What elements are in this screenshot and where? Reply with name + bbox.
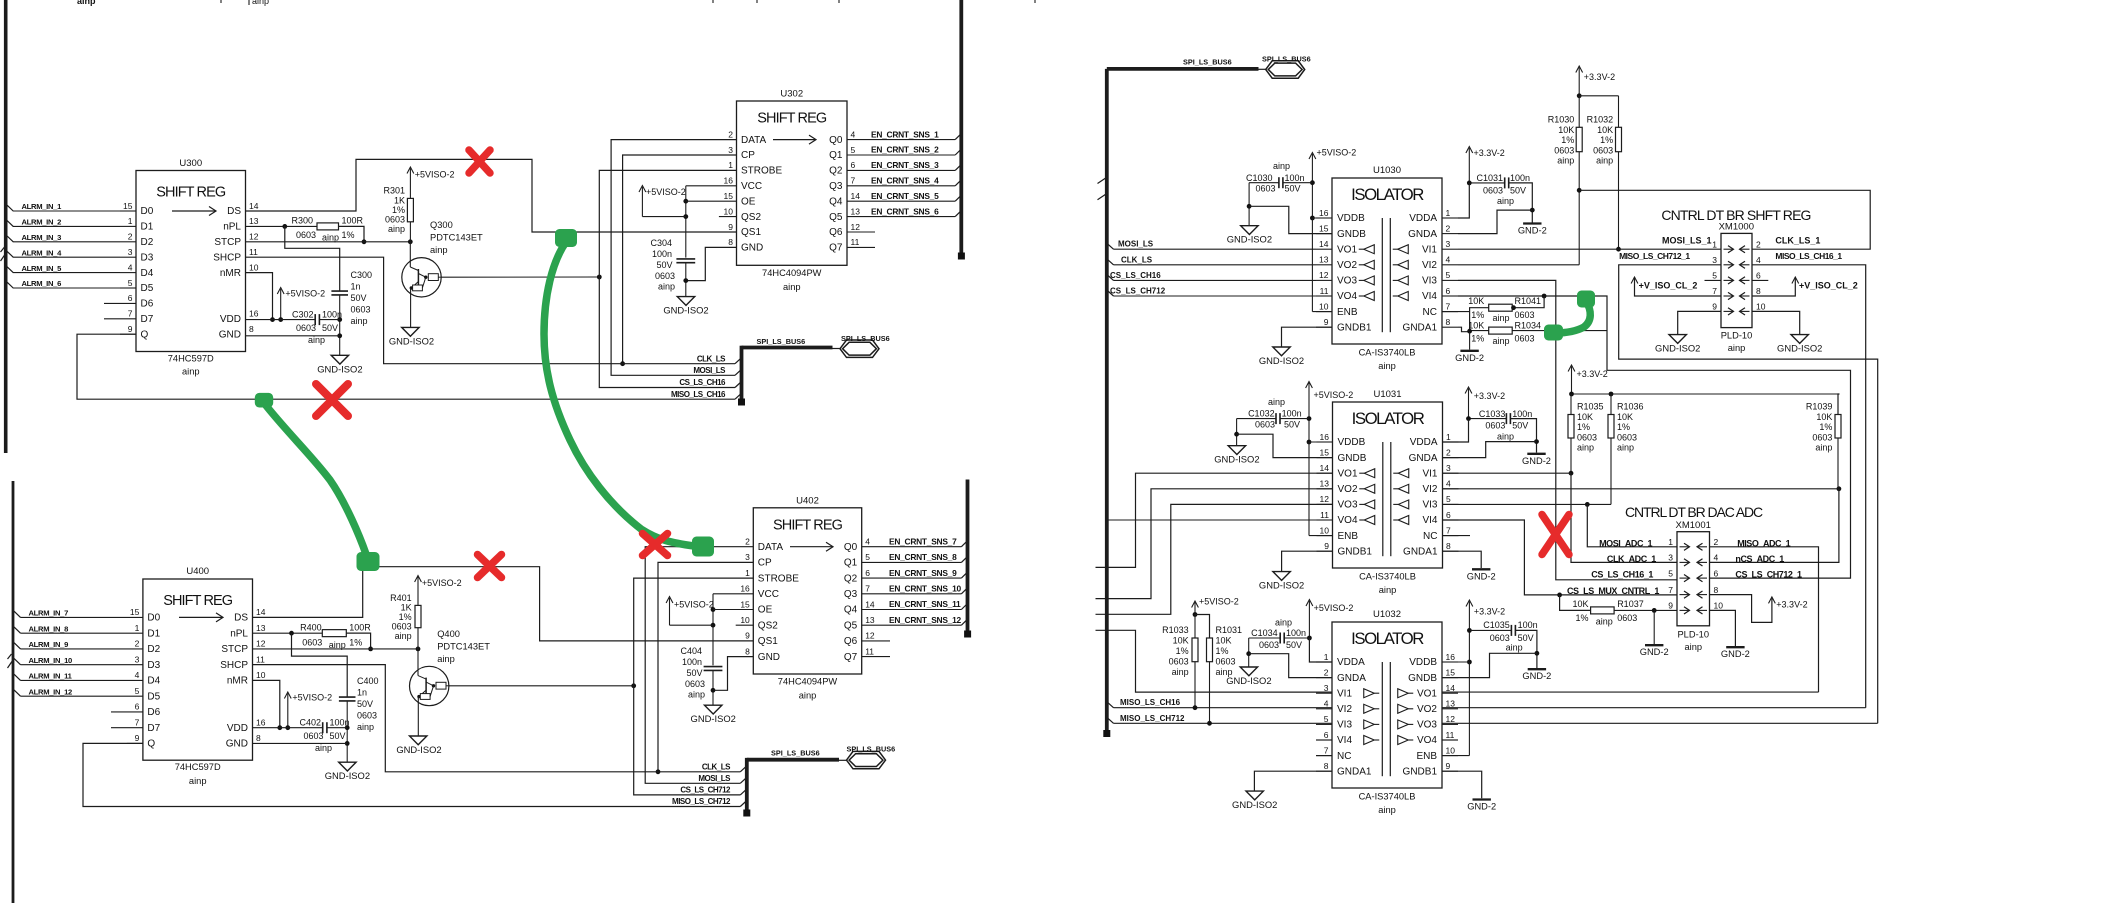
- svg-text:10: 10: [1756, 302, 1766, 312]
- wire mid stub to U1032 VI1: [1096, 630, 1333, 692]
- svg-text:VI4: VI4: [1422, 515, 1437, 526]
- svg-text:OE: OE: [741, 196, 756, 207]
- wire STCP net: [246, 241, 411, 243]
- wire U302 CP to CLK_LS: [623, 155, 737, 364]
- wire U1030 GNDA to GND-2: [1458, 210, 1532, 234]
- wire U400 SHCP to CLK_LS row: [253, 665, 741, 772]
- svg-text:D2: D2: [141, 237, 154, 248]
- svg-text:PDTC143ET: PDTC143ET: [430, 233, 483, 243]
- svg-text:ainp: ainp: [658, 282, 675, 292]
- resistor R1037 10K: [1591, 607, 1615, 614]
- svg-text:ALRM_IN_2: ALRM_IN_2: [22, 218, 62, 227]
- ground GND-ISO2 at U1032 GNDA: [1240, 667, 1257, 676]
- annotation green blob on U302 QS1 wire: [555, 229, 577, 247]
- page border segment (bottom-left): [12, 481, 15, 903]
- annotation red X on CS_LS_CH16_1 vertical: [1542, 515, 1569, 555]
- svg-text:1: 1: [728, 160, 733, 170]
- svg-text:1%: 1%: [1471, 310, 1484, 320]
- svg-text:GNDB1: GNDB1: [1403, 766, 1438, 777]
- svg-text:6: 6: [1446, 286, 1451, 296]
- wire C400 to ground rail: [346, 701, 348, 762]
- svg-text:11: 11: [851, 237, 860, 247]
- bus entries MOSI CLK CS16 CS712 with labels: [1107, 243, 1114, 249]
- IC U1032 CA-IS3740LB digital isolator: [1332, 622, 1442, 788]
- svg-text:50V: 50V: [656, 260, 672, 270]
- wire U302 VCC rail: [686, 185, 737, 187]
- svg-text:2: 2: [745, 537, 750, 547]
- svg-text:U1031: U1031: [1374, 389, 1402, 400]
- svg-text:SHIFT REG: SHIFT REG: [773, 518, 843, 534]
- svg-text:ainp: ainp: [357, 722, 374, 732]
- annotation green blob on U402 DATA wire: [692, 537, 714, 557]
- connector XM1001 PLD-10: [1677, 532, 1710, 626]
- power +5VISO-2 at R401: [417, 577, 419, 605]
- wire VDD net: [246, 319, 316, 321]
- svg-text:1%: 1%: [342, 230, 355, 240]
- svg-text:15: 15: [130, 607, 140, 617]
- wire R1039 bottom: [1837, 438, 1839, 489]
- svg-text:10: 10: [1446, 745, 1456, 755]
- wire U1030 GNDA1 to GND-2: [1458, 327, 1470, 332]
- svg-text:Q7: Q7: [844, 652, 858, 663]
- wire U302 OE: [686, 200, 737, 202]
- power +5VISO-2 at U402: [669, 598, 671, 625]
- svg-text:MOSI_LS: MOSI_LS: [698, 774, 731, 783]
- svg-text:R1037: R1037: [1617, 599, 1644, 609]
- wire U1032 ENB to +3.3V-2: [1468, 662, 1470, 756]
- svg-text:100n: 100n: [682, 657, 702, 667]
- svg-text:9: 9: [135, 733, 140, 743]
- svg-text:13: 13: [851, 206, 861, 216]
- svg-text:U400: U400: [186, 566, 209, 577]
- svg-text:1K: 1K: [394, 196, 405, 206]
- svg-text:10K: 10K: [1558, 125, 1574, 135]
- svg-text:CS_LS_CH16: CS_LS_CH16: [1110, 271, 1161, 280]
- svg-text:7: 7: [865, 584, 870, 594]
- annotation green highlighter stroke B: [544, 242, 694, 546]
- power +5VISO-2 at R301: [409, 169, 411, 199]
- annotation green blob on MISO_LS_CH16 row: [255, 393, 273, 408]
- svg-text:VI1: VI1: [1422, 244, 1437, 255]
- power +3.3V-2 rail above R1035 R1036 R1039: [1571, 367, 1573, 395]
- wire U1032 GNDA1 to ground: [1254, 771, 1332, 791]
- svg-text:ainp: ainp: [1497, 432, 1514, 442]
- wire C1033 to GND-2: [1510, 419, 1536, 453]
- svg-text:ISOLATOR: ISOLATOR: [1351, 185, 1424, 204]
- svg-text:0603: 0603: [385, 215, 405, 225]
- svg-text:ainp: ainp: [437, 654, 455, 664]
- svg-text:10K: 10K: [1577, 412, 1593, 422]
- XM1001 pin arrows and numbers: [1680, 546, 1689, 548]
- resistor R1041 10K: [1489, 304, 1513, 311]
- svg-text:VO2: VO2: [1417, 704, 1437, 715]
- svg-text:GND-ISO2: GND-ISO2: [317, 363, 362, 374]
- svg-text:ainp: ainp: [395, 631, 412, 641]
- svg-text:GND-2: GND-2: [1467, 571, 1496, 581]
- wire C1031 to GND-2: [1509, 183, 1533, 223]
- annotation green blob at U400 DS corner: [357, 552, 380, 571]
- wire U1031 ENB to +5VISO-2: [1308, 442, 1310, 536]
- ground GND-ISO2 under C304: [677, 297, 694, 306]
- svg-text:STCP: STCP: [214, 237, 241, 248]
- svg-text:GNDB: GNDB: [1338, 453, 1367, 464]
- capacitor C304 100n: [676, 258, 695, 260]
- resistor R1030 10K: [1576, 127, 1582, 151]
- wire STCP net U400: [253, 648, 419, 650]
- svg-text:CA-IS3740LB: CA-IS3740LB: [1359, 792, 1416, 802]
- power +5VISO-2 at U300 VDD: [280, 289, 282, 320]
- svg-text:ainp: ainp: [1493, 336, 1510, 346]
- U1032 VO4 stub: [1442, 739, 1458, 741]
- svg-text:VI1: VI1: [1422, 468, 1437, 479]
- svg-text:SHCP: SHCP: [220, 660, 248, 671]
- wire U1032 VO3 row: [1442, 722, 1878, 724]
- svg-text:0603: 0603: [296, 230, 316, 240]
- wire U1031 VO1 to mid stub: [1096, 473, 1333, 567]
- svg-text:14: 14: [1319, 239, 1329, 249]
- svg-text:50V: 50V: [1286, 640, 1302, 650]
- svg-text:GNDB: GNDB: [1337, 229, 1366, 240]
- bus entries MISO_LS_CH16 MISO_LS_CH712 with labels: [1107, 702, 1114, 708]
- svg-text:C302: C302: [292, 310, 314, 320]
- svg-text:1: 1: [135, 623, 140, 633]
- svg-text:SPI_LS_BUS6: SPI_LS_BUS6: [1183, 58, 1232, 67]
- svg-text:0603: 0603: [303, 731, 323, 741]
- wire GND pin U300: [246, 335, 340, 337]
- svg-text:D4: D4: [147, 676, 160, 687]
- svg-text:R1035: R1035: [1577, 402, 1604, 412]
- svg-text:VDDA: VDDA: [1337, 657, 1365, 668]
- svg-text:ainp: ainp: [1497, 196, 1514, 206]
- wire nPL net: [246, 225, 318, 227]
- svg-text:U302: U302: [780, 89, 803, 100]
- svg-text:ALRM_IN_3: ALRM_IN_3: [22, 233, 62, 242]
- svg-text:15: 15: [740, 599, 750, 609]
- IC U302 74HC4094PW shift register: [737, 101, 848, 265]
- wire U1031 VO2 to mid stub: [1096, 489, 1333, 599]
- svg-text:R300: R300: [291, 215, 313, 225]
- svg-text:ENB: ENB: [1416, 751, 1437, 762]
- svg-text:ainp: ainp: [430, 245, 448, 255]
- svg-text:EN_CRNT_SNS_5: EN_CRNT_SNS_5: [871, 191, 939, 201]
- svg-text:2: 2: [1324, 667, 1329, 677]
- svg-text:8: 8: [1324, 761, 1329, 771]
- wire R1041 right to VI4 row: [1512, 296, 1544, 308]
- bus port SPI_LS_BUS6 hexagon (right): [1266, 61, 1305, 78]
- svg-text:13: 13: [865, 615, 875, 625]
- wire Q400 collector to STROBE net: [449, 685, 634, 687]
- svg-text:GND: GND: [741, 243, 763, 254]
- svg-text:GND-ISO2: GND-ISO2: [1777, 343, 1822, 354]
- svg-text:0603: 0603: [1216, 657, 1236, 667]
- svg-text:0603: 0603: [1593, 145, 1613, 155]
- ground GND-2 at XM1001 pin10: [1726, 646, 1744, 648]
- svg-text:7: 7: [1668, 585, 1673, 595]
- resistor R400 100R: [322, 630, 346, 637]
- svg-text:SHCP: SHCP: [213, 252, 241, 263]
- bus SPI_LS_BUS6 (right vertical): [1105, 69, 1109, 734]
- svg-text:GND-ISO2: GND-ISO2: [1259, 580, 1304, 591]
- wire DS route to U302 QS1: [246, 159, 737, 232]
- ground GND-ISO2 at U1031 GNDB1: [1273, 572, 1290, 581]
- wire U1031 VO4 long row: [1106, 519, 1333, 521]
- svg-text:8: 8: [1446, 317, 1451, 327]
- svg-text:+5VISO-2: +5VISO-2: [292, 693, 332, 703]
- svg-text:U402: U402: [796, 495, 819, 506]
- net labels EN_CRNT_SNS_1..6 to bus: [847, 139, 955, 141]
- svg-text:3: 3: [135, 654, 140, 664]
- svg-text:10: 10: [1714, 601, 1724, 611]
- svg-text:15: 15: [724, 191, 734, 201]
- wire R1037 left to MUX row: [1560, 595, 1591, 611]
- transistor Q400 PDTC143ET: [417, 649, 419, 676]
- svg-text:C1030: C1030: [1246, 173, 1273, 183]
- wire R300 to STCP junction: [339, 226, 365, 241]
- U1030 channel buffers: [1364, 245, 1375, 254]
- wire U1030 VDDA to +3.3V-2: [1458, 183, 1469, 218]
- svg-text:+5VISO-2: +5VISO-2: [415, 170, 455, 180]
- power +3.3V-2 at C1033: [1468, 389, 1470, 419]
- svg-text:1%: 1%: [1575, 613, 1588, 623]
- svg-text:GNDB1: GNDB1: [1337, 322, 1372, 333]
- wire U402 DATA to MOSI_LS: [645, 547, 753, 784]
- svg-text:CLK_LS: CLK_LS: [702, 763, 731, 772]
- svg-text:CS_LS_CH16_1: CS_LS_CH16_1: [1591, 570, 1653, 580]
- svg-text:Q300: Q300: [430, 220, 453, 230]
- svg-text:SHIFT REG: SHIFT REG: [163, 593, 233, 609]
- svg-text:+3.3V-2: +3.3V-2: [1776, 600, 1807, 610]
- svg-text:ISOLATOR: ISOLATOR: [1352, 409, 1425, 428]
- svg-text:U1032: U1032: [1373, 609, 1401, 620]
- svg-text:3: 3: [1668, 553, 1673, 563]
- ground GND-ISO2 at XM1000 pin10: [1791, 335, 1808, 344]
- svg-text:MOSI_LS: MOSI_LS: [1118, 240, 1154, 249]
- svg-text:SHIFT REG: SHIFT REG: [156, 185, 226, 201]
- svg-text:MOSI_LS: MOSI_LS: [693, 366, 726, 375]
- svg-text:14: 14: [865, 599, 875, 609]
- svg-text:8: 8: [1446, 541, 1451, 551]
- wire nMR to VDD rail U400: [253, 680, 280, 727]
- power +5VISO-2 left at R1033 R1031: [1194, 603, 1196, 615]
- svg-text:7: 7: [851, 176, 856, 186]
- svg-text:VDD: VDD: [220, 314, 241, 325]
- svg-text:GNDB1: GNDB1: [1338, 546, 1373, 557]
- svg-text:DS: DS: [234, 613, 248, 624]
- svg-text:VDDA: VDDA: [1409, 213, 1437, 224]
- svg-text:CLK_ADC_1: CLK_ADC_1: [1607, 554, 1656, 564]
- svg-text:DATA: DATA: [758, 542, 784, 553]
- annotation red X on U400 DS route: [478, 555, 502, 578]
- svg-text:50V: 50V: [1285, 184, 1301, 194]
- svg-text:GND: GND: [219, 329, 241, 340]
- svg-text:3: 3: [1446, 239, 1451, 249]
- svg-text:ainp: ainp: [1596, 617, 1613, 627]
- svg-text:5: 5: [1712, 271, 1717, 281]
- svg-text:5: 5: [1668, 568, 1673, 578]
- svg-text:1: 1: [1446, 432, 1451, 442]
- wire Q300 collector to STROBE net: [441, 276, 599, 278]
- svg-text:2: 2: [1714, 537, 1719, 547]
- IC U300 74HC597D shift register: [136, 171, 246, 352]
- capacitor C402 100n: [322, 722, 324, 733]
- svg-text:MISO_LS_CH16: MISO_LS_CH16: [1120, 698, 1181, 707]
- svg-text:Q5: Q5: [829, 212, 843, 223]
- resistor R1031 10K: [1207, 638, 1213, 662]
- svg-text:GND-2: GND-2: [1522, 671, 1551, 681]
- svg-text:1: 1: [128, 216, 133, 226]
- wire nPL net U400: [253, 632, 323, 634]
- svg-text:VDDA: VDDA: [1410, 437, 1438, 448]
- svg-text:15: 15: [123, 201, 133, 211]
- svg-text:GND: GND: [226, 739, 248, 750]
- svg-text:VI4: VI4: [1337, 735, 1352, 746]
- capacitor C1031 100n: [1504, 177, 1506, 188]
- svg-text:1: 1: [1712, 239, 1717, 249]
- svg-text:0603: 0603: [1812, 432, 1832, 442]
- svg-text:0603: 0603: [1169, 657, 1189, 667]
- svg-text:100n: 100n: [1286, 628, 1306, 638]
- svg-text:100n: 100n: [652, 249, 672, 259]
- svg-text:EN_CRNT_SNS_11: EN_CRNT_SNS_11: [889, 599, 961, 609]
- svg-text:R1034: R1034: [1515, 320, 1542, 330]
- power +5VISO-2 at U302: [641, 187, 643, 217]
- svg-text:50V: 50V: [351, 293, 367, 303]
- svg-text:ainp: ainp: [189, 776, 207, 786]
- wire U400 Q to MISO_LS_CH712 row: [83, 743, 740, 806]
- svg-text:ainp: ainp: [1379, 585, 1397, 595]
- svg-text:EN_CRNT_SNS_7: EN_CRNT_SNS_7: [889, 536, 957, 546]
- IC U1030 CA-IS3740LB digital isolator: [1332, 178, 1442, 344]
- svg-text:PDTC143ET: PDTC143ET: [437, 642, 490, 652]
- wire U1030 VI1 row (MOSI_LS_1) to XM1000 pin1: [1458, 248, 1721, 250]
- svg-text:0603: 0603: [302, 638, 322, 648]
- svg-text:GND-ISO2: GND-ISO2: [389, 335, 434, 346]
- svg-text:DATA: DATA: [741, 135, 767, 146]
- svg-text:ALRM_IN_7: ALRM_IN_7: [29, 609, 69, 618]
- bus EN_CRNT (lower): [966, 480, 970, 634]
- svg-text:Q6: Q6: [844, 636, 858, 647]
- svg-text:ainp: ainp: [1493, 313, 1510, 323]
- svg-text:2: 2: [1756, 239, 1761, 249]
- power +3.3V-2 at C1031: [1468, 148, 1470, 183]
- svg-text:GNDA1: GNDA1: [1337, 766, 1372, 777]
- page border segment (top-left): [4, 0, 8, 453]
- svg-text:15: 15: [1319, 223, 1329, 233]
- svg-text:ENB: ENB: [1337, 307, 1358, 318]
- U1032 VI4 and NC stubs: [1316, 739, 1332, 741]
- ground GND-ISO2 under Q400: [410, 736, 427, 745]
- svg-text:VI2: VI2: [1337, 704, 1352, 715]
- svg-text:3: 3: [1446, 463, 1451, 473]
- svg-text:12: 12: [256, 639, 266, 649]
- wire Q300 emitter to ground: [410, 288, 412, 327]
- svg-text:8: 8: [1714, 585, 1719, 595]
- svg-text:STCP: STCP: [221, 644, 248, 655]
- connector XM1000 PLD-10: [1721, 233, 1752, 327]
- svg-text:GND-2: GND-2: [1522, 456, 1551, 466]
- svg-text:6: 6: [1446, 510, 1451, 520]
- svg-text:15: 15: [1446, 667, 1456, 677]
- svg-text:ainp: ainp: [388, 224, 405, 234]
- svg-text:Q4: Q4: [844, 605, 858, 616]
- wire C1035 to GND-2: [1515, 630, 1537, 668]
- svg-text:CS_LS_CH712_1: CS_LS_CH712_1: [1735, 570, 1802, 580]
- power +V_ISO_CL_2 right at XM1000 pin8: [1752, 277, 1795, 296]
- svg-text:U1030: U1030: [1373, 165, 1401, 176]
- svg-text:VO1: VO1: [1337, 244, 1357, 255]
- svg-text:100n: 100n: [330, 718, 350, 728]
- wire C1034 to ground: [1248, 638, 1250, 667]
- svg-text:100n: 100n: [1285, 173, 1305, 183]
- svg-text:ainp: ainp: [1557, 156, 1574, 166]
- ground GND-ISO2 under C300: [331, 355, 348, 364]
- wire U1031 GNDA to GND-2: [1443, 442, 1537, 458]
- svg-text:Q4: Q4: [829, 196, 843, 207]
- bus stub hooks on right bus: [1098, 177, 1107, 183]
- svg-text:9: 9: [1712, 302, 1717, 312]
- IC U400 74HC597D shift register: [143, 579, 253, 760]
- svg-text:GNDA: GNDA: [1408, 229, 1437, 240]
- wire U1030 VI3 (CS_LS_CH16_1) to XM1001 pin5: [1458, 280, 1677, 579]
- svg-text:+5VISO-2: +5VISO-2: [1199, 597, 1239, 607]
- svg-text:ALRM_IN_9: ALRM_IN_9: [29, 640, 69, 649]
- resistor R401 1K: [415, 605, 421, 627]
- svg-text:6: 6: [851, 160, 856, 170]
- svg-text:VI3: VI3: [1422, 500, 1437, 511]
- svg-text:3: 3: [1324, 683, 1329, 693]
- svg-text:4: 4: [865, 537, 870, 547]
- U1031 channel buffers: [1364, 469, 1375, 478]
- svg-text:VI3: VI3: [1337, 720, 1352, 731]
- svg-text:12: 12: [249, 232, 259, 242]
- svg-text:6: 6: [865, 568, 870, 578]
- svg-text:1: 1: [1668, 537, 1673, 547]
- svg-text:10: 10: [256, 670, 266, 680]
- svg-text:16: 16: [1320, 432, 1330, 442]
- svg-text:50V: 50V: [1284, 420, 1300, 430]
- svg-text:ALRM_IN_11: ALRM_IN_11: [29, 672, 73, 681]
- svg-text:STROBE: STROBE: [758, 573, 799, 584]
- svg-text:STROBE: STROBE: [741, 166, 782, 177]
- svg-text:9: 9: [1324, 317, 1329, 327]
- svg-text:4: 4: [1324, 699, 1329, 709]
- U1032 pin stubs: [1316, 661, 1332, 663]
- svg-text:VO3: VO3: [1417, 720, 1437, 731]
- svg-text:C1031: C1031: [1476, 173, 1503, 183]
- svg-text:1: 1: [1446, 208, 1451, 218]
- svg-text:nCS_ADC_1: nCS_ADC_1: [1735, 554, 1784, 564]
- svg-text:50V: 50V: [1518, 633, 1534, 643]
- ground GND-ISO2 under C404: [705, 705, 722, 714]
- svg-text:0603: 0603: [1617, 613, 1637, 623]
- svg-text:7: 7: [1446, 525, 1451, 535]
- annotation green highlighter stroke C: [1555, 301, 1590, 333]
- svg-text:11: 11: [865, 646, 874, 656]
- svg-text:16: 16: [249, 309, 259, 319]
- svg-text:C300: C300: [351, 270, 373, 280]
- svg-text:16: 16: [1446, 652, 1456, 662]
- svg-text:CA-IS3740LB: CA-IS3740LB: [1359, 348, 1416, 358]
- svg-text:GND-ISO2: GND-ISO2: [1232, 799, 1277, 810]
- wire DS route U400 to U402 QS1: [253, 567, 754, 641]
- capacitor C1035 100n: [1510, 625, 1512, 636]
- wire R1037 right to XM1001 pin9 and GND-2: [1614, 609, 1677, 611]
- annotation green blob C2: [1544, 325, 1563, 341]
- svg-text:SPI_LS_BUS6: SPI_LS_BUS6: [847, 745, 896, 754]
- wire U1032 GNDB1 to GND-2: [1442, 771, 1482, 798]
- svg-text:GNDA: GNDA: [1409, 453, 1438, 464]
- wire U302 GND to ground: [686, 247, 737, 280]
